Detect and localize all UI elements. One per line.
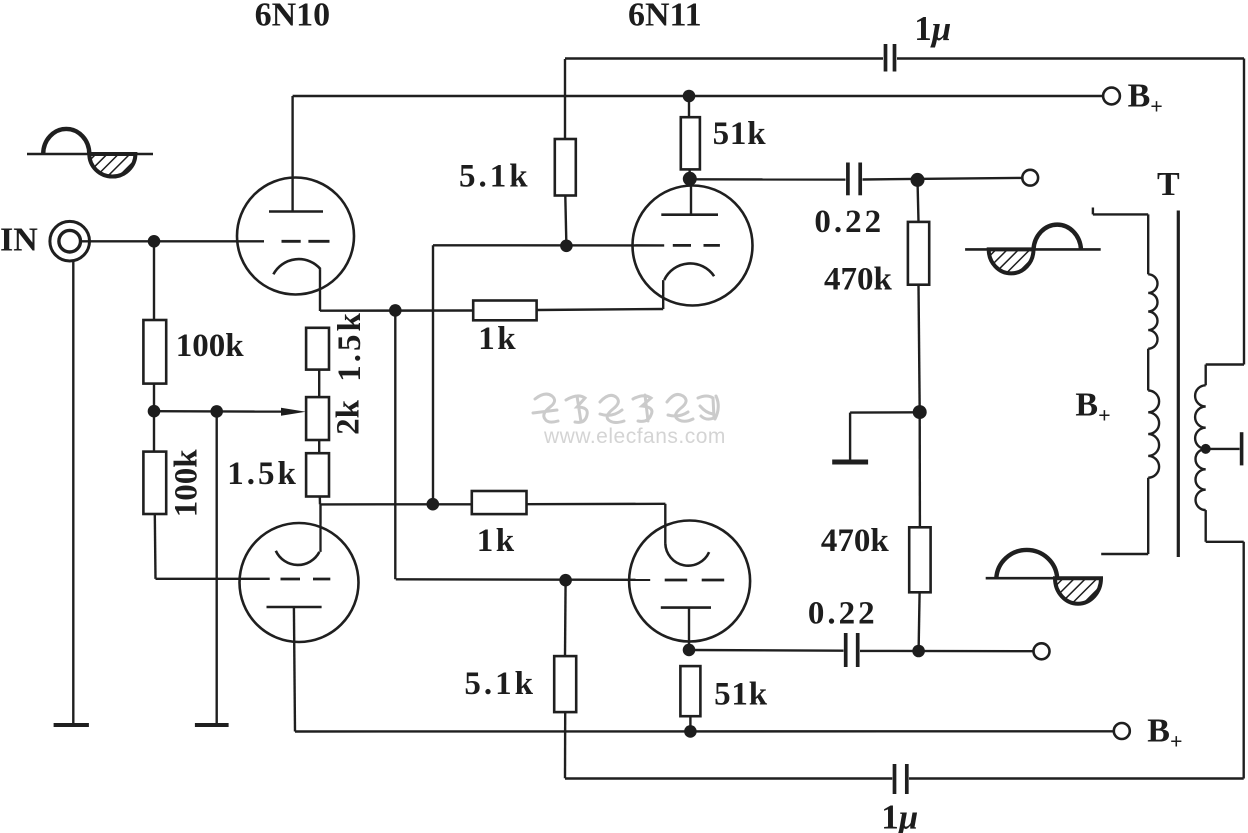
svg-text:2k: 2k: [331, 399, 367, 435]
svg-text:0.22: 0.22: [808, 596, 878, 632]
svg-text:1k: 1k: [478, 321, 518, 357]
svg-text:www.elecfans.com: www.elecfans.com: [543, 425, 726, 448]
svg-text:470k: 470k: [821, 523, 890, 559]
svg-text:1k: 1k: [477, 523, 517, 559]
svg-text:51k: 51k: [714, 677, 768, 713]
svg-text:IN: IN: [0, 222, 38, 259]
svg-text:B+: B+: [1075, 387, 1110, 428]
svg-text:B+: B+: [1128, 77, 1163, 118]
svg-text:470k: 470k: [824, 262, 893, 298]
svg-text:51k: 51k: [713, 116, 767, 152]
svg-text:6N10: 6N10: [255, 0, 331, 34]
svg-text:T: T: [1157, 166, 1180, 203]
svg-text:1.5k: 1.5k: [332, 310, 368, 382]
svg-text:1.5k: 1.5k: [227, 456, 299, 492]
svg-text:5.1k: 5.1k: [464, 666, 536, 702]
svg-text:1μ: 1μ: [914, 9, 951, 48]
svg-text:5.1k: 5.1k: [459, 159, 531, 195]
svg-text:100k: 100k: [169, 449, 205, 518]
svg-text:1μ: 1μ: [881, 797, 918, 833]
svg-text:B+: B+: [1147, 713, 1182, 754]
svg-text:6N11: 6N11: [628, 0, 702, 34]
svg-text:0.22: 0.22: [814, 204, 884, 240]
svg-text:100k: 100k: [176, 328, 245, 364]
